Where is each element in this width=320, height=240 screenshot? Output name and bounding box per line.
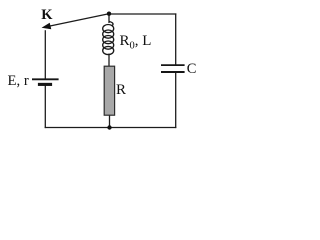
node B (bottom junction dot)	[107, 125, 111, 129]
svg-text:C: C	[187, 61, 197, 77]
wire resistor bottom to node B	[109, 115, 111, 128]
capacitor C plates	[161, 65, 185, 72]
switch K blade (diagonal with arrowhead)	[42, 14, 108, 29]
wire right branch lower (capacitor to bottom)	[175, 72, 177, 128]
svg-text:R0, L: R0, L	[120, 33, 152, 51]
wire inductor bottom to resistor top	[108, 54, 110, 67]
resistor R (gray box)	[104, 66, 114, 115]
node A (top junction dot)	[107, 12, 111, 16]
svg-text:E, r: E, r	[8, 73, 29, 89]
battery E, r (long thin plate + short thick plate)	[32, 79, 59, 84]
svg-text:K: K	[41, 7, 53, 23]
svg-text:R: R	[116, 82, 126, 98]
wire top horizontal (node A to capacitor branch)	[109, 13, 177, 15]
wire bottom horizontal	[45, 127, 177, 129]
wire right branch upper (to capacitor)	[175, 13, 177, 64]
wire left branch lower (battery to bottom)	[44, 85, 46, 128]
wire left branch upper (switch to battery)	[44, 30, 46, 79]
inductor R0,L coil	[103, 22, 114, 55]
wire node A to inductor top	[108, 14, 110, 24]
